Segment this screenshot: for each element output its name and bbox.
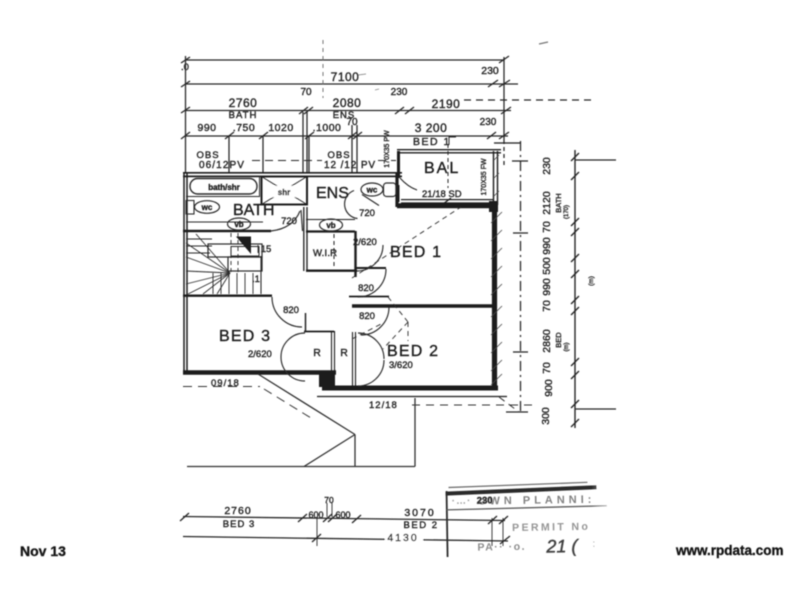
dashed eave line left: [183, 386, 260, 388]
speck: [358, 74, 366, 75]
tick: [488, 80, 498, 87]
stairs bottom wall: [183, 295, 272, 297]
FIXTURES: [271, 191, 461, 387]
robe back wall: [304, 331, 334, 333]
connector bottom: [575, 408, 616, 410]
svg-text:·…·: ·…·: [452, 496, 472, 507]
right wall hatching: [491, 155, 502, 385]
svg-text:170X35 PW: 170X35 PW: [384, 130, 391, 168]
stamp inner line: [447, 506, 607, 510]
speck: [375, 89, 379, 90]
robe divider double: [331, 331, 333, 374]
bed1 top wall below balcony: [397, 203, 497, 208]
stair direction arrow filled: [236, 237, 251, 255]
wc bath: [186, 201, 194, 215]
svg-text:shr: shr: [278, 188, 290, 197]
bath door wall (stairs top): [183, 230, 271, 232]
svg-text:70: 70: [324, 495, 334, 505]
dim 4130 backing: [385, 531, 423, 542]
stair dashed guide lines: [230, 233, 232, 272]
wir dashed rail line: [333, 234, 335, 269]
tick: [499, 132, 509, 139]
svg-text:720: 720: [359, 208, 375, 219]
svg-text:900: 900: [543, 379, 555, 397]
balcony rail double line: [401, 199, 493, 201]
svg-text:230: 230: [481, 65, 499, 77]
bottom outer skirt line: [317, 396, 507, 398]
lower storey base line: [187, 466, 415, 468]
svg-text:3 200: 3 200: [415, 121, 448, 135]
bed2 bottom exterior wall: [322, 386, 498, 391]
dashed datum line right: [464, 99, 592, 101]
svg-text:600: 600: [335, 510, 350, 520]
svg-text:06/12PV: 06/12PV: [199, 160, 245, 171]
dim line 2760/2080/2190: [185, 110, 511, 112]
svg-text:170X35 FW: 170X35 FW: [481, 158, 488, 195]
svg-text:BATH: BATH: [233, 202, 274, 219]
svg-text:4130: 4130: [387, 532, 418, 544]
tick: [299, 107, 308, 114]
bed3 robe door arcs: [281, 333, 305, 357]
svg-text:wc: wc: [366, 186, 378, 195]
bed1 bed2 divider wall: [352, 304, 494, 308]
stray scan mark: [539, 42, 548, 44]
bath door arc 720: [271, 211, 300, 231]
dim line 990/750/1020/1000: [185, 135, 508, 137]
svg-text:wc: wc: [201, 203, 213, 212]
svg-text:2760: 2760: [229, 96, 258, 110]
wir top wall: [306, 230, 355, 232]
bath vanity bench: [186, 221, 263, 223]
tick: [304, 107, 313, 114]
70 extension pair: [326, 503, 328, 517]
svg-text:.750: .750: [233, 122, 255, 134]
hall wall extension: [355, 267, 386, 269]
svg-text:BED 2: BED 2: [404, 520, 439, 531]
balcony right wall: [493, 151, 495, 205]
tick: [181, 57, 190, 63]
svg-text:BAL: BAL: [424, 160, 460, 177]
svg-text:820: 820: [358, 283, 374, 294]
svg-text:500: 500: [541, 257, 553, 275]
stair landing box lower: [228, 257, 262, 271]
tick 4130: [312, 534, 321, 542]
balcony dashed centerline: [447, 144, 449, 188]
DOORS: [211, 144, 488, 411]
svg-text:2/620: 2/620: [353, 237, 377, 248]
svg-text:3/620: 3/620: [389, 360, 413, 371]
tick: [405, 107, 414, 114]
svg-text:12 /12 PV: 12 /12 PV: [324, 160, 376, 171]
tick: [353, 132, 362, 139]
robe right wall double: [352, 332, 354, 388]
tick: [487, 132, 496, 139]
stair winder fan: [196, 234, 230, 273]
svg-text:(m): (m): [588, 276, 595, 286]
shower X diagonal: [262, 177, 308, 205]
ens door arc 720: [345, 191, 358, 219]
ticks: [180, 513, 189, 521]
left extension line: [185, 56, 187, 173]
tick: [348, 132, 357, 139]
wir bottom wall: [306, 270, 357, 272]
right exterior wall: [492, 203, 497, 390]
svg-text:600: 600: [308, 510, 323, 520]
svg-text:2190: 2190: [432, 97, 461, 111]
svg-text:Nov 13: Nov 13: [20, 543, 66, 559]
balcony door arc: [400, 178, 417, 190]
hall door arc 820 upper: [358, 269, 386, 297]
svg-text:70: 70: [541, 300, 553, 312]
dashed eave line bottom right: [412, 404, 532, 406]
RIGHTCHAIN: [183, 143, 521, 397]
stamp top border thick: [446, 487, 597, 493]
svg-text:2120: 2120: [541, 191, 553, 215]
tick: [499, 56, 509, 63]
svg-text:12/18: 12/18: [369, 400, 398, 411]
svg-text:(170): (170): [564, 205, 570, 219]
wc ens: [361, 183, 383, 196]
bed3 entry door arc 820: [272, 297, 302, 327]
svg-text:2760: 2760: [224, 505, 251, 517]
tick: [181, 107, 190, 113]
chain ticks: [571, 153, 579, 161]
svg-text:990: 990: [197, 122, 216, 134]
left exterior wall: [183, 173, 185, 374]
lower storey outline diagonal return: [304, 435, 355, 467]
tick: [501, 107, 511, 114]
svg-text:BATH: BATH: [554, 193, 563, 212]
bath tub: [190, 179, 257, 195]
extension vertical mid: [316, 518, 318, 546]
tick: [181, 81, 190, 87]
top exterior wall: [183, 172, 402, 174]
svg-text:7100: 7100: [331, 70, 360, 84]
svg-text:21/18 SD: 21/18 SD: [422, 189, 462, 200]
right vertical dimension chain line: [574, 150, 576, 428]
svg-text:www.rpdata.com: www.rpdata.com: [675, 543, 784, 558]
dim line 7100: [185, 83, 518, 85]
right extension vertical: [503, 57, 505, 140]
svg-text:3070: 3070: [404, 507, 435, 519]
svg-text:.1000: .1000: [313, 122, 342, 134]
wir right wall stub: [354, 231, 356, 277]
svg-text:820: 820: [359, 311, 375, 322]
4130 dim line: [183, 537, 508, 542]
shower box: [262, 177, 308, 205]
svg-text:1020: 1020: [268, 122, 293, 134]
ROOMLABELS: [183, 374, 532, 467]
connector top: [575, 159, 616, 161]
svg-text:990: 990: [541, 278, 553, 296]
svg-text:990: 990: [541, 237, 553, 255]
svg-text:vb: vb: [234, 220, 243, 229]
STAMP: [445, 480, 618, 559]
svg-text:2860: 2860: [541, 329, 553, 353]
dashed corner diagonal: [499, 397, 519, 412]
svg-text:BED: BED: [554, 332, 563, 348]
bed3 bottom exterior wall: [183, 370, 336, 375]
lower storey right vertical: [414, 398, 416, 467]
bed1 door arc at wir stub: [357, 245, 383, 271]
tick: [395, 107, 404, 114]
dashed line between OBS labels: [252, 160, 322, 162]
230 extension verticals into stamp: [491, 518, 493, 546]
stair landing box: [208, 244, 262, 257]
svg-text:70: 70: [346, 117, 358, 128]
robe wall R1 right: [305, 313, 307, 332]
balcony left wall: [397, 151, 400, 178]
dim line overall top: [185, 59, 504, 61]
svg-text:2/620: 2/620: [248, 349, 272, 360]
wir left wall: [303, 207, 305, 271]
dashed vertical right boundary: [520, 141, 522, 413]
lower storey vertical: [354, 435, 356, 467]
svg-text:ENS: ENS: [316, 185, 349, 202]
svg-text:vb: vb: [326, 221, 335, 230]
stair inner rect: [231, 247, 259, 257]
svg-text:70: 70: [541, 221, 553, 233]
svg-text:BED 1: BED 1: [413, 136, 451, 148]
svg-text:R: R: [340, 347, 348, 359]
stair treads upper left: [186, 238, 212, 240]
hall short wall: [349, 296, 389, 298]
extension verticals to wall: [228, 136, 230, 172]
svg-text:2080: 2080: [333, 96, 362, 110]
svg-text:(m): (m): [564, 343, 570, 352]
svg-text:70: 70: [541, 362, 553, 374]
svg-text:230: 230: [480, 117, 497, 128]
dashed roof line bed1: [352, 207, 461, 278]
shower X diagonal: [262, 177, 308, 205]
svg-text:.1: .1: [252, 274, 260, 285]
svg-text:PA·· ·o.: PA·· ·o.: [477, 541, 526, 554]
ens right wall: [395, 173, 398, 207]
svg-text:oWN PLANNI:: oWN PLANNI:: [479, 494, 596, 508]
svg-text:BED 3: BED 3: [223, 519, 255, 530]
tick: [181, 132, 190, 139]
svg-text:300: 300: [540, 407, 552, 425]
balcony top wall: [397, 149, 501, 151]
svg-text:70: 70: [300, 87, 312, 98]
svg-text:09/18: 09/18: [211, 378, 240, 389]
svg-text:230: 230: [477, 495, 493, 506]
svg-text:230: 230: [391, 87, 408, 98]
svg-text:15: 15: [261, 244, 272, 255]
tick: [259, 132, 268, 139]
stair label 15: [257, 245, 259, 253]
hall door arc 820 lower: [361, 307, 389, 335]
svg-text:BED 3: BED 3: [219, 328, 271, 345]
dashed swing lines bed2: [352, 297, 408, 349]
svg-text:W.I.R: W.I.R: [313, 248, 337, 259]
balcony corner blob: [489, 201, 498, 212]
svg-text:21 (: 21 (: [545, 536, 579, 557]
svg-text:BED 1: BED 1: [390, 244, 442, 261]
svg-text:230: 230: [541, 157, 553, 175]
bottom main dim line: [183, 517, 505, 521]
balcony left wall stub: [398, 185, 400, 202]
bed2 door arcs: [358, 333, 384, 359]
svg-text:R: R: [313, 347, 321, 359]
STAIRS: [186, 176, 396, 231]
vb bath: [228, 218, 251, 230]
svg-text:bath/shr: bath/shr: [208, 183, 240, 192]
bath niche lines: [186, 196, 260, 198]
cross tick on dashed vertical: [512, 160, 528, 162]
stair lower risers: [212, 273, 214, 294]
ens vanity bench: [306, 219, 355, 221]
step corner blob: [319, 373, 335, 387]
fold crease dashes: [322, 40, 324, 98]
rail tick: [443, 198, 451, 204]
svg-text:820: 820: [283, 305, 299, 316]
tick: [499, 80, 510, 87]
wall plate segment right of balcony: [494, 142, 521, 144]
dashed eave diagonal: [264, 389, 311, 418]
TOPDIMS: [180, 503, 510, 546]
tick: [305, 132, 314, 139]
stamp left border: [447, 491, 448, 557]
vb ens: [320, 219, 343, 231]
tick: [225, 132, 234, 139]
svg-text:BED 2: BED 2: [387, 343, 439, 360]
shr label backing: [271, 186, 297, 197]
svg-text:.0: .0: [181, 62, 189, 73]
svg-text:720: 720: [281, 216, 297, 227]
svg-text:BATH: BATH: [229, 110, 258, 121]
lower storey outline diagonal: [258, 374, 355, 435]
svg-text:PERMIT No: PERMIT No: [512, 521, 590, 534]
stamp fade overlay: [591, 480, 618, 556]
